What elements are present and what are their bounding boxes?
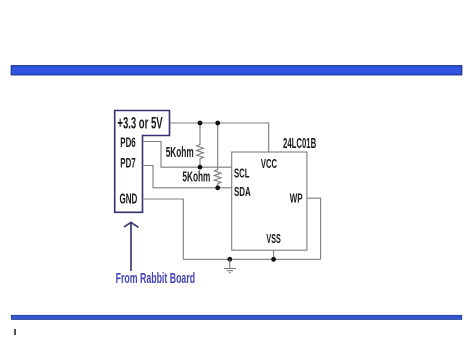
resistor R1 (5Kohm pull-up on SCL) [197, 123, 204, 167]
svg-text:SCL: SCL [234, 165, 249, 180]
junction dot: R1/SCL [198, 165, 203, 170]
junction dot: rail/R2 [215, 121, 220, 126]
svg-text:24LC01B: 24LC01B [283, 135, 316, 152]
wire: WP to ground rail [307, 198, 321, 259]
power/header box (Rabbit board connector) [115, 111, 170, 213]
resistor R2 (5Kohm pull-up on SDA) [214, 123, 221, 188]
label +3.3 or 5V [117, 114, 163, 133]
wire: bottom ground rail [183, 258, 320, 260]
label PD7 [120, 154, 136, 170]
junction dot: VSS/rail [271, 257, 276, 262]
svg-text:VSS: VSS [266, 231, 281, 246]
svg-text:+3.3 or 5V: +3.3 or 5V [117, 114, 163, 133]
EEPROM chip U1 24LC01B [232, 152, 307, 250]
svg-text:PD6: PD6 [120, 134, 136, 150]
wire: PD6 to SCL [143, 142, 232, 168]
arrow from Rabbit board [124, 222, 139, 271]
page number 1 [14, 329, 16, 335]
label GND [120, 191, 138, 208]
wire: GND down to ground rail [143, 199, 184, 259]
svg-text:WP: WP [290, 191, 303, 206]
wire: +V rail from box to VCC corner [170, 123, 269, 152]
label 24LC01B [283, 135, 316, 152]
bottom blue divider bar [11, 315, 461, 319]
svg-text:5Kohm: 5Kohm [166, 145, 194, 161]
svg-text:PD7: PD7 [120, 154, 136, 170]
svg-text:GND: GND [120, 191, 138, 208]
top blue divider bar [11, 66, 461, 75]
wire: PD7 to SDA [143, 166, 232, 188]
label 5Kohm (R2) [182, 169, 210, 185]
junction dot: R2/SDA [215, 185, 220, 190]
pin label VSS [266, 231, 281, 246]
label 5Kohm (R1) [166, 145, 194, 161]
label PD6 [120, 134, 136, 150]
svg-text:From Rabbit Board: From Rabbit Board [116, 271, 196, 287]
junction dot: rail/R1 [198, 121, 203, 126]
wire: VSS to ground rail [273, 250, 275, 259]
svg-text:5Kohm: 5Kohm [182, 169, 210, 185]
ground symbol [224, 257, 236, 273]
pin label WP [290, 191, 303, 206]
label From Rabbit Board [116, 271, 196, 287]
pin label SDA [234, 184, 251, 199]
pin label SCL [234, 165, 249, 180]
svg-text:SDA: SDA [234, 184, 251, 199]
pin label VCC [261, 156, 278, 171]
svg-text:VCC: VCC [261, 156, 278, 171]
